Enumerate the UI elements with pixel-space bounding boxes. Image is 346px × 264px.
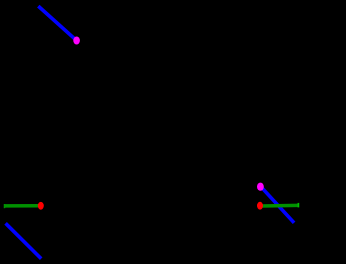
green rod end tick (bottom-right, bright tip)	[297, 203, 299, 208]
magenta joint dot (top-left)	[73, 37, 80, 45]
magenta joint dot (bottom-right)	[257, 183, 264, 191]
red joint dot (bottom-right)	[257, 202, 263, 210]
green rod end tick (bottom-left)	[4, 204, 6, 208]
blue rod (bottom-right arm link)	[261, 187, 294, 223]
red joint dot (bottom-left)	[38, 202, 44, 210]
green rod (bottom-right arm link, drawn over blue)	[261, 204, 298, 208]
blue rod (top-left arm link)	[38, 6, 76, 40]
blue rod (bottom-left lower link)	[6, 223, 42, 258]
green rod (bottom-left arm link)	[4, 204, 39, 208]
